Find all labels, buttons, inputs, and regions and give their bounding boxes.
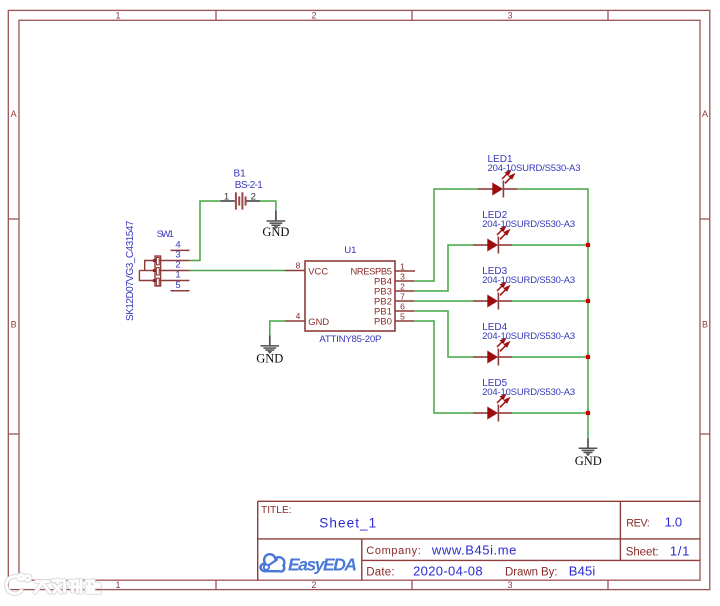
watermark <box>6 575 100 594</box>
svg-text:www.B45i.me: www.B45i.me <box>431 542 517 557</box>
wire U1.PB4 to LED1 <box>414 189 478 281</box>
battery B1 <box>220 169 263 210</box>
svg-text:1: 1 <box>400 261 405 271</box>
svg-text:VCC: VCC <box>308 265 328 276</box>
wire SW1.3 to B1.1 <box>190 201 221 261</box>
switch SW1 <box>125 220 190 321</box>
svg-text:204-10SURD/S530-A3: 204-10SURD/S530-A3 <box>482 331 575 342</box>
svg-text:Date:: Date: <box>366 566 394 578</box>
svg-text:B: B <box>11 320 17 330</box>
svg-text:Drawn By:: Drawn By: <box>505 566 558 578</box>
svg-text:204-10SURD/S530-A3: 204-10SURD/S530-A3 <box>482 275 575 286</box>
LED5 <box>473 378 575 422</box>
svg-text:1: 1 <box>115 10 120 20</box>
svg-text:Company:: Company: <box>366 545 421 557</box>
wire SW1.2 to U1.VCC <box>190 270 286 272</box>
svg-text:PB0: PB0 <box>374 316 392 327</box>
svg-text:GND: GND <box>308 316 329 327</box>
svg-text:ATTINY85-20P: ATTINY85-20P <box>319 334 381 345</box>
svg-text:5: 5 <box>400 311 405 321</box>
svg-text:2: 2 <box>400 281 405 291</box>
svg-text:GND: GND <box>256 351 283 365</box>
svg-text:6: 6 <box>400 301 405 311</box>
title block <box>258 501 700 580</box>
svg-text:4: 4 <box>296 311 301 321</box>
wire U1.PB1 to LED4 <box>414 311 473 357</box>
svg-text:A: A <box>702 109 708 119</box>
svg-text:1.0: 1.0 <box>665 515 683 530</box>
svg-text:3: 3 <box>507 10 512 20</box>
wire U1.GND to GND <box>270 321 285 335</box>
svg-text:1: 1 <box>115 580 120 590</box>
wire U1.PB0 to LED5 <box>414 321 473 413</box>
ground GND (LED bus) <box>575 438 602 468</box>
svg-text:GND: GND <box>262 225 289 239</box>
svg-text:SW1: SW1 <box>157 229 174 240</box>
svg-text:204-10SURD/S530-A3: 204-10SURD/S530-A3 <box>482 219 575 230</box>
wire LED cathodes bus to GND <box>512 189 588 438</box>
svg-text:TITLE:: TITLE: <box>261 505 292 516</box>
svg-text:204-10SURD/S530-A3: 204-10SURD/S530-A3 <box>482 387 575 398</box>
svg-text:B: B <box>702 320 708 330</box>
svg-text:2: 2 <box>251 192 256 203</box>
wire B1.2 to GND <box>260 201 276 211</box>
svg-text:BS-2-1: BS-2-1 <box>235 180 263 191</box>
svg-text:5: 5 <box>175 280 180 291</box>
svg-text:1/1: 1/1 <box>670 544 690 559</box>
svg-text:U1: U1 <box>344 245 356 256</box>
svg-text:3: 3 <box>400 271 405 281</box>
svg-text:2: 2 <box>311 10 316 20</box>
svg-text:1: 1 <box>224 192 229 203</box>
LED3 <box>473 266 575 310</box>
svg-text:204-10SURD/S530-A3: 204-10SURD/S530-A3 <box>488 163 581 174</box>
svg-text:3: 3 <box>507 580 512 590</box>
svg-text:7: 7 <box>400 291 405 301</box>
LED2 <box>473 210 575 254</box>
svg-text:B45i: B45i <box>569 563 596 578</box>
svg-text:GND: GND <box>575 454 602 468</box>
svg-text:2: 2 <box>311 580 316 590</box>
IC U1 ATTINY85-20P <box>285 245 415 345</box>
svg-text:SK12D07VG3_C431547: SK12D07VG3_C431547 <box>125 220 136 321</box>
svg-text:Sheet:: Sheet: <box>626 547 659 559</box>
EasyEDA logo <box>259 553 357 574</box>
svg-text:8: 8 <box>296 260 301 270</box>
svg-text:REV:: REV: <box>626 518 650 530</box>
wire U1.PB2 to LED3 <box>414 300 473 302</box>
LED1 <box>478 154 581 198</box>
ground GND (U1) <box>256 335 283 365</box>
junction dots <box>586 243 590 415</box>
svg-text:B1: B1 <box>234 169 247 180</box>
svg-text:EasyEDA: EasyEDA <box>288 554 357 574</box>
LED4 <box>473 322 575 366</box>
wire U1.PB3 to LED2 <box>414 245 473 291</box>
svg-text:A: A <box>11 109 17 119</box>
svg-text:2020-04-08: 2020-04-08 <box>413 563 483 578</box>
ground GND (battery) <box>262 211 289 239</box>
